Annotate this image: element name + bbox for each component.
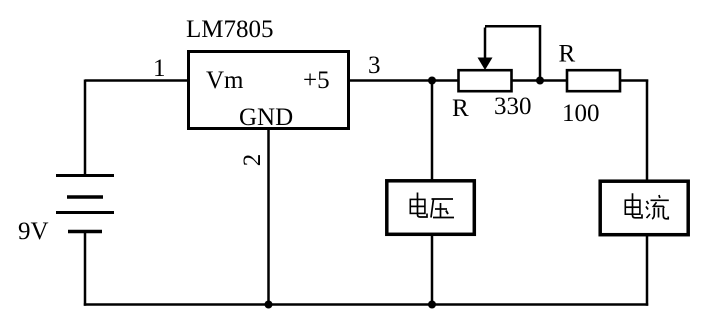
wiper loop wire [485,26,540,80]
wire ammeter bottom [646,234,649,306]
wire pot to R100 [512,79,568,82]
voltmeter glyph dian (electric) [410,193,427,218]
junction node B dot [536,77,544,85]
wire pin1 horizontal [85,79,188,82]
svg-text:Vm: Vm [206,67,244,94]
svg-text:R: R [559,41,576,68]
wire R100 to right corner [620,79,648,82]
voltmeter glyph ya (pressure) [431,199,454,218]
wire voltmeter bottom [431,234,434,305]
ammeter glyph dian (electric) [625,193,642,218]
resistor R 100 body [567,70,620,91]
svg-text:2: 2 [239,154,266,167]
svg-text:100: 100 [562,100,600,127]
junction node A dot [428,77,436,85]
svg-text:3: 3 [368,52,381,79]
wire voltmeter top [431,81,434,181]
battery BT1 9V [56,176,114,232]
wire battery bottom vertical [84,232,87,306]
junction dot voltmeter/bottom bus [428,301,436,309]
wire right vertical to ammeter [646,80,649,182]
wire bottom bus [84,303,648,306]
svg-text:330: 330 [494,93,532,120]
ammeter glyph liu (flow) [646,195,669,219]
wire left vertical to battery [84,80,87,177]
wire pin3 horizontal [348,79,458,82]
ammeter box [600,181,688,235]
svg-text:R: R [452,95,469,122]
svg-text:9V: 9V [18,218,49,245]
regulator U1 LM7805 box [189,52,349,129]
voltmeter box [387,181,475,235]
junction dot pin2/bottom bus [265,301,273,309]
svg-text:1: 1 [153,55,166,82]
potentiometer R 330 body [459,70,512,91]
potentiometer wiper arrow [478,28,493,71]
svg-text:GND: GND [239,104,293,131]
svg-text:+5: +5 [303,67,330,94]
wire pin2 vertical [267,128,270,305]
svg-text:LM7805: LM7805 [186,16,274,43]
